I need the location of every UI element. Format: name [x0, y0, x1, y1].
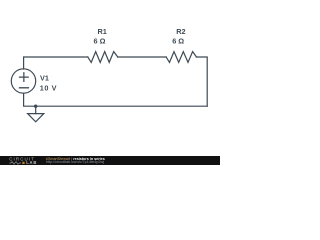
watermark line 1: user / title — [46, 158, 105, 162]
svg-text:LAB: LAB — [26, 160, 37, 165]
svg-text:6 Ω: 6 Ω — [94, 37, 106, 46]
wire bottom from right corner to V1 bottom — [24, 93, 208, 106]
svg-text:R1: R1 — [98, 27, 107, 36]
resistor R2 — [166, 52, 196, 63]
V1 minus sign — [20, 87, 29, 89]
V1 plus sign — [20, 73, 29, 82]
svg-text:10 V: 10 V — [40, 84, 57, 93]
CircuitLab logo — [0, 156, 44, 165]
ground stem — [35, 106, 37, 113]
watermark line 2: url — [46, 161, 104, 165]
wire from R2 to right corner and down — [196, 57, 207, 106]
svg-text:R2: R2 — [176, 27, 185, 36]
wire between R1 and R2 — [118, 56, 167, 58]
svg-text:V1: V1 — [40, 74, 49, 83]
voltage source V1 — [11, 69, 35, 93]
node junction dot — [34, 105, 37, 108]
watermark bar — [0, 156, 220, 165]
wire top-left from V1 top to R1 — [24, 57, 88, 69]
ground triangle — [28, 114, 44, 122]
svg-text:6 Ω: 6 Ω — [172, 37, 184, 46]
resistor R1 — [88, 52, 118, 63]
